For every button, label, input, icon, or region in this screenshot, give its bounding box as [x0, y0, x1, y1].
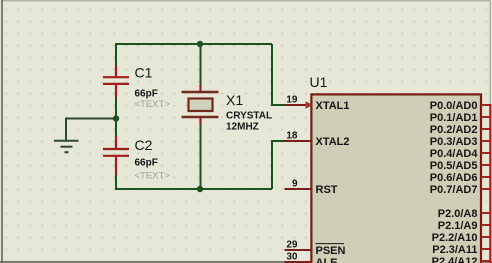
- svg-text:66pF: 66pF: [135, 158, 158, 169]
- IC U1 body: [311, 94, 481, 263]
- capacitor C2: [103, 136, 129, 175]
- svg-text:19: 19: [286, 95, 298, 106]
- U1 pin 30 ALE stub: [285, 261, 311, 263]
- svg-text:U1: U1: [310, 74, 328, 90]
- svg-text:30: 30: [286, 252, 298, 263]
- crystal X1: [182, 85, 219, 124]
- svg-text:12MHZ: 12MHZ: [226, 122, 259, 133]
- wire junction A to ground: [66, 119, 116, 141]
- svg-text:P2.0/A8: P2.0/A8: [438, 208, 478, 220]
- capacitor C1: [103, 66, 129, 97]
- svg-text:<TEXT>: <TEXT>: [135, 99, 171, 110]
- U1 pin 18 XTAL2 stub: [285, 140, 311, 142]
- U1 pin P2.0/A8 stub: [481, 212, 490, 214]
- U1 pin P2.2/A10 stub: [481, 236, 490, 238]
- svg-text:P0.3/AD3: P0.3/AD3: [430, 136, 478, 148]
- svg-text:18: 18: [286, 131, 298, 142]
- svg-text:P0.4/AD4: P0.4/AD4: [430, 148, 479, 160]
- svg-text:X1: X1: [226, 92, 243, 108]
- svg-text:XTAL2: XTAL2: [316, 136, 350, 148]
- svg-text:9: 9: [292, 179, 298, 190]
- svg-text:P0.6/AD6: P0.6/AD6: [430, 172, 478, 184]
- wire top rail from C1 top to crystal and right corner: [116, 44, 272, 77]
- wire junction A to C2 top: [115, 119, 117, 138]
- svg-text:P0.5/AD5: P0.5/AD5: [430, 160, 478, 172]
- svg-text:P0.7/AD7: P0.7/AD7: [430, 184, 478, 196]
- svg-text:<TEXT>: <TEXT>: [135, 171, 171, 182]
- svg-text:P2.1/A9: P2.1/A9: [438, 220, 478, 232]
- svg-text:P2.2/A10: P2.2/A10: [432, 232, 478, 244]
- U1 pin P0.0/AD0 stub: [481, 104, 490, 106]
- wire bus along right edge: [489, 104, 491, 263]
- U1 pin 29 PSEN stub: [285, 249, 311, 251]
- svg-text:PSEN: PSEN: [316, 245, 346, 257]
- node junction on top rail at crystal: [197, 41, 203, 47]
- wire bottom rail up to XTAL2: [272, 141, 285, 189]
- U1 pin P0.5/AD5 stub: [481, 164, 490, 166]
- svg-text:P0.2/AD2: P0.2/AD2: [430, 124, 478, 136]
- svg-text:CRYSTAL: CRYSTAL: [226, 110, 272, 121]
- U1 pin P0.1/AD1 stub: [481, 116, 490, 118]
- wire C2 bottom to bottom rail: [116, 174, 272, 189]
- ground: [54, 141, 79, 153]
- svg-text:P2.3/A11: P2.3/A11: [432, 244, 477, 256]
- svg-text:P0.0/AD0: P0.0/AD0: [430, 100, 478, 112]
- U1 pin P0.3/AD3 stub: [481, 140, 490, 142]
- node A junction dot between C1 and C2: [113, 115, 119, 121]
- U1 pin P2.1/A9 stub: [481, 224, 490, 226]
- wire crystal top lead (green part): [200, 44, 202, 86]
- U1 pin P2.3/A11 stub: [481, 248, 490, 250]
- svg-text:ALE: ALE: [316, 257, 338, 263]
- svg-text:P2.4/A12: P2.4/A12: [432, 256, 478, 263]
- svg-text:RST: RST: [316, 184, 338, 196]
- wire right vertical down to XTAL1: [272, 44, 285, 105]
- U1 pin P0.2/AD2 stub: [481, 128, 490, 130]
- U1 pin 9 RST stub: [285, 188, 311, 190]
- U1 pin 19 XTAL1 stub: [285, 104, 311, 106]
- U1 pin P0.4/AD4 stub: [481, 152, 490, 154]
- wire C1 bottom to junction A: [115, 96, 117, 119]
- svg-text:P0.1/AD1: P0.1/AD1: [430, 112, 478, 124]
- svg-text:29: 29: [286, 240, 298, 251]
- U1 pin P2.4/A12 stub: [481, 260, 490, 262]
- U1 pin P0.6/AD6 stub: [481, 176, 490, 178]
- svg-text:C1: C1: [135, 65, 153, 81]
- node junction on bottom rail at crystal: [197, 186, 203, 192]
- U1 pin P0.7/AD7 stub: [481, 188, 490, 190]
- svg-text:XTAL1: XTAL1: [316, 100, 350, 112]
- U1 pin 19 clock arrow: [306, 101, 313, 108]
- wire crystal bottom lead (green part): [200, 123, 202, 189]
- svg-text:C2: C2: [135, 137, 153, 153]
